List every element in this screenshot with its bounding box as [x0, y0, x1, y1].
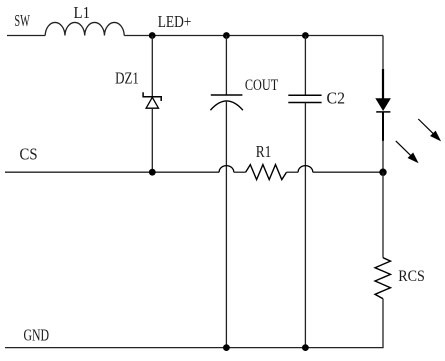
- capacitor COUT: [210, 77, 278, 110]
- resistor RCS: [375, 258, 425, 299]
- LED diode: [376, 69, 390, 141]
- wire RCS top lead: [382, 172, 384, 258]
- node junction CS / LED / RCS: [379, 169, 386, 176]
- wire CS left segment: [5, 171, 219, 173]
- node junction GND / COUT: [223, 344, 230, 351]
- wire CS hop over C2 lead: [298, 166, 313, 173]
- svg-text:DZ1: DZ1: [115, 68, 139, 87]
- wire CS right segment: [313, 171, 383, 173]
- wire LED to CS junction: [382, 140, 384, 172]
- svg-text:GND: GND: [24, 325, 50, 344]
- node junction top rail / C2: [302, 32, 309, 39]
- LED light arrow upper: [418, 119, 440, 140]
- wire GND rail: [5, 347, 384, 349]
- wire top rail: [124, 35, 383, 37]
- zener diode DZ1: [115, 68, 161, 108]
- wire LED top lead: [382, 36, 384, 71]
- wire DZ1 bottom lead: [151, 108, 153, 172]
- node junction GND / C2: [302, 344, 309, 351]
- svg-text:R1: R1: [256, 142, 272, 161]
- wire COUT bottom lead: [225, 101, 227, 348]
- node junction top rail / COUT: [223, 32, 230, 39]
- capacitor C2: [288, 89, 345, 108]
- svg-text:COUT: COUT: [245, 77, 278, 94]
- svg-text:LED+: LED+: [158, 12, 192, 31]
- wire CS hop over COUT lead: [219, 166, 234, 173]
- wire C2 top lead: [304, 36, 306, 96]
- LED light arrow lower: [396, 141, 418, 162]
- wire DZ1 top lead: [151, 36, 153, 97]
- inductor L1: [45, 3, 124, 36]
- wire CS between R1 and hop: [287, 171, 299, 173]
- wire COUT top lead: [225, 36, 227, 96]
- wire CS between hop and R1: [234, 171, 246, 173]
- svg-text:L1: L1: [74, 3, 91, 22]
- wire RCS bottom lead: [382, 299, 384, 348]
- node junction top rail / L1 / DZ1: [149, 32, 156, 39]
- wire SW lead: [7, 35, 45, 37]
- svg-text:C2: C2: [327, 89, 346, 108]
- resistor R1: [246, 142, 287, 180]
- svg-text:SW: SW: [14, 11, 30, 30]
- node junction CS / DZ1: [149, 169, 156, 176]
- wire C2 bottom lead: [304, 103, 306, 348]
- svg-text:CS: CS: [20, 144, 38, 163]
- svg-text:RCS: RCS: [398, 268, 425, 285]
